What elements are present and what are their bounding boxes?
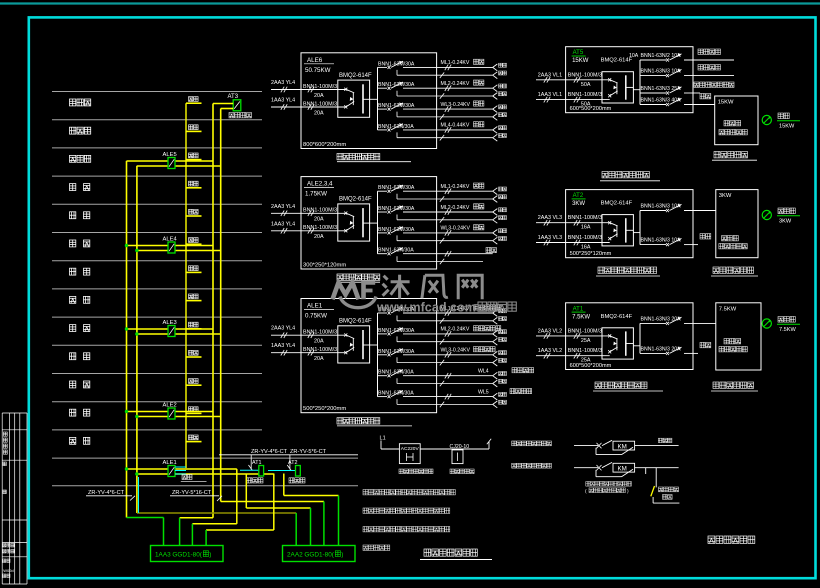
drop to AT1 fan box xyxy=(250,455,252,470)
fork labels row4 xyxy=(499,372,507,384)
title block vertical text xyxy=(0,0,1,1)
wire riser right A (yellow) xyxy=(212,104,214,518)
svg-text:BNN1-63N/2 10A: BNN1-63N/2 10A xyxy=(641,53,682,59)
wire branch floor 6 xyxy=(186,300,202,302)
wire W7 ALE1 upper loop xyxy=(236,469,238,524)
motor label AT5 xyxy=(777,113,800,130)
output bus ALE1 xyxy=(377,313,379,397)
ATS box AT3 xyxy=(233,100,241,111)
label yingji floor 10 xyxy=(189,181,199,186)
wire branch floor 11 xyxy=(186,159,202,161)
svg-text:7.5KW: 7.5KW xyxy=(572,314,590,320)
label yingji floor 13 xyxy=(189,97,199,102)
svg-text:BMQ2-614F: BMQ2-614F xyxy=(339,319,372,325)
floor label 十二层 xyxy=(70,127,91,134)
wire ALE4 upper horizontal xyxy=(127,245,214,247)
svg-text:1AA3 YL4: 1AA3 YL4 xyxy=(271,98,295,104)
circuit label ML2-0.24KV row2 xyxy=(441,80,484,87)
label yingji floor 2 xyxy=(189,407,199,412)
circuit label WL3-0.24KV row3 xyxy=(441,225,484,232)
wire riser supply-1 left (yellow) xyxy=(126,161,128,518)
ATS switch ALE1 xyxy=(338,326,370,363)
wire circuit B outputs xyxy=(635,467,679,469)
svg-text:BNN1-63N/3 10A: BNN1-63N/3 10A xyxy=(641,238,682,244)
svg-text:): ) xyxy=(209,552,211,559)
breaker BNN1-63M/30A row2 xyxy=(378,82,493,99)
input feeder 2AA3 VL3 AT2 xyxy=(536,215,610,231)
label yingji floor 9 xyxy=(189,209,199,214)
svg-text:ALE4: ALE4 xyxy=(163,237,178,243)
svg-text:20A: 20A xyxy=(314,93,324,99)
svg-text:ALE5: ALE5 xyxy=(163,152,177,158)
svg-text:BNN1-100M/3: BNN1-100M/3 xyxy=(303,208,337,214)
panel title songfengji qiehuan xiang xyxy=(595,382,647,388)
breaker BNN1-63N/30A row4 xyxy=(378,369,493,386)
motor label AT2 xyxy=(777,208,800,225)
svg-text:2AA3 YL4: 2AA3 YL4 xyxy=(271,204,295,210)
svg-text:2AA2 GGD1-80(: 2AA2 GGD1-80( xyxy=(287,552,335,559)
circuit label ML2-0.24KV row2 xyxy=(441,326,501,333)
ATS output feed ALE6 xyxy=(370,98,378,100)
label beiyong block2 row4 xyxy=(486,248,496,253)
svg-text:BMQ2-614F: BMQ2-614F xyxy=(601,201,633,207)
wire W8 ALE1 lower loop xyxy=(273,474,275,531)
input feeder 1AA3 ALE6 xyxy=(271,98,346,117)
svg-text:2AA3 YL4: 2AA3 YL4 xyxy=(271,80,295,86)
label yingji floor 11 xyxy=(189,153,199,158)
panel AT2 enclosure xyxy=(566,190,693,258)
panel ALE2,3,4 enclosure xyxy=(301,177,437,269)
junction dots ALE1 xyxy=(125,467,128,470)
load label AT5 row3 xyxy=(694,82,734,87)
svg-text:7.5KW: 7.5KW xyxy=(779,327,797,333)
switch blade yellow xyxy=(651,486,655,496)
floor label 十 层 xyxy=(70,184,76,191)
load label AT5 row4 xyxy=(700,94,711,99)
floor line 12 xyxy=(52,401,262,403)
wire branch floor 8 xyxy=(186,243,202,245)
input feeder 1AA3 VL3 AT2 xyxy=(536,235,610,251)
floor label 六 层 xyxy=(70,296,76,303)
breaker BNN1-63N/2 10A AT5 row1 xyxy=(629,53,734,62)
wire branch floor 3 xyxy=(186,384,202,386)
svg-text:10A: 10A xyxy=(629,53,639,59)
label danlian kaiguan xyxy=(659,487,679,492)
svg-text:AT1: AT1 xyxy=(573,306,584,312)
svg-text:WL3-0.24KV: WL3-0.24KV xyxy=(441,226,471,232)
floor label 二 层 xyxy=(70,409,76,416)
breaker BNN1-63N/3 25A AT5 row3 xyxy=(640,86,700,95)
input feeder 2AA3 ALE6 xyxy=(271,80,346,99)
svg-text:BNN1-100M/3: BNN1-100M/3 xyxy=(568,72,602,78)
load label AT5 row2 xyxy=(698,65,721,70)
svg-text:BMQ2-614F: BMQ2-614F xyxy=(601,58,633,64)
factory box AT5 xyxy=(715,96,758,145)
fork labels row5 xyxy=(499,392,507,404)
ATS output feed ALE2,3,4 xyxy=(370,222,378,224)
wire W6 riser1 to switchgear1 xyxy=(127,517,164,519)
output bus AT5 xyxy=(639,60,641,105)
svg-text:0.75KW: 0.75KW xyxy=(305,313,327,320)
panel box ALE2 xyxy=(168,408,175,419)
diagram title shigu zhaoming yuanlitu xyxy=(424,549,477,556)
floor label 十一层 xyxy=(70,155,91,162)
fork labels row3 xyxy=(499,105,507,117)
svg-text:300*250*120mm: 300*250*120mm xyxy=(303,263,346,269)
label shusandeng xyxy=(658,438,672,442)
svg-text:3KW: 3KW xyxy=(779,219,792,225)
breaker BNN1-63M/30A row1 xyxy=(378,185,493,202)
fork labels row2 xyxy=(499,84,507,96)
lamp fork row4 xyxy=(493,372,498,387)
lamp fork row3 xyxy=(493,351,498,366)
svg-text:1AA3 YL4: 1AA3 YL4 xyxy=(271,343,295,349)
label yingji at ALE1 xyxy=(182,475,192,480)
input feeder 2AA3 ALE1 xyxy=(271,326,346,345)
breaker BNN1-63M/30A row2 xyxy=(378,205,493,222)
panel AT5 enclosure xyxy=(566,47,693,113)
svg-text:3KW: 3KW xyxy=(719,193,732,199)
svg-text:ZR-YV-5*6-CT: ZR-YV-5*6-CT xyxy=(290,449,327,455)
panel title paiwubeng control xyxy=(598,267,657,273)
outer top trim line xyxy=(0,2,820,4)
panel box ALE5 xyxy=(168,158,175,169)
breaker BNN1-63N/3 10A AT5 row2 xyxy=(640,69,734,78)
svg-text:600*500*200mm: 600*500*200mm xyxy=(570,106,612,112)
contact box AC220V xyxy=(399,444,420,464)
panel box ALE4 xyxy=(168,242,175,253)
svg-text:ML2-0.24KV: ML2-0.24KV xyxy=(441,81,470,87)
wire circuit B xyxy=(574,467,598,469)
svg-text:20A: 20A xyxy=(314,217,324,223)
floor line 13 xyxy=(52,429,262,431)
label KM aux contact xyxy=(586,482,632,487)
svg-text:WL5: WL5 xyxy=(478,389,489,395)
breaker BNN1-63N/3 20A AT1 row1 xyxy=(640,316,716,325)
panel box ALE3 xyxy=(168,326,175,337)
load label AT2 row2 xyxy=(700,234,711,239)
breaker BNN1-63M/30A row1 xyxy=(378,306,493,323)
output bus AT1 xyxy=(639,323,641,353)
wire emergency branch riser (yellow) xyxy=(185,103,187,468)
fire lines at ALE1 (cyan) xyxy=(175,466,186,468)
svg-text:50.75KW: 50.75KW xyxy=(305,67,331,74)
lamp fork row1 xyxy=(493,310,498,325)
lamp fork row1 xyxy=(493,64,498,79)
wire ALE2 lower horizontal xyxy=(137,416,221,418)
svg-text:AC220V: AC220V xyxy=(401,446,420,452)
svg-text:ALE3: ALE3 xyxy=(163,320,177,326)
svg-text:AT5: AT5 xyxy=(573,50,584,56)
svg-text:BNN1-100M/3: BNN1-100M/3 xyxy=(568,92,602,98)
ATS switch AT1 xyxy=(602,328,633,359)
wire W4 from AT2 xyxy=(283,474,285,496)
svg-text:ALE1: ALE1 xyxy=(307,303,323,310)
lamp fork row2 xyxy=(493,85,498,100)
floor label 十三层 xyxy=(70,99,91,106)
label yingji floor 12 xyxy=(189,125,199,130)
fork labels row3 xyxy=(499,351,507,363)
svg-text:50A: 50A xyxy=(581,82,591,88)
svg-text:BNN1-100M/3: BNN1-100M/3 xyxy=(303,101,337,107)
junction dots ALE3 xyxy=(125,327,128,330)
svg-text:ML4-0.44KV: ML4-0.44KV xyxy=(441,123,470,129)
panel title under AT1 xyxy=(0,0,1,1)
input feeder 1AA3 ALE1 xyxy=(271,343,346,362)
breaker BNN1-63M/30A row3 xyxy=(378,348,493,365)
junction dots ALE4 xyxy=(125,244,128,247)
title block table xyxy=(2,413,27,584)
lamp fork row5 xyxy=(493,393,498,408)
svg-text:800*600*200mm: 800*600*200mm xyxy=(303,142,346,148)
svg-text:BNN1-100M/3: BNN1-100M/3 xyxy=(568,235,602,241)
label yingji floor 3 xyxy=(189,379,199,384)
floor line 6 xyxy=(52,232,262,234)
fire wire cyan drop xyxy=(138,477,140,513)
fork labels row1 xyxy=(499,309,507,321)
wire W2 riserB to switchgear2 xyxy=(221,501,324,503)
floor label 九 层 xyxy=(70,212,76,219)
svg-text:WL3-0.24KV: WL3-0.24KV xyxy=(441,348,471,354)
label songfengji xyxy=(247,478,263,483)
svg-text:W02d: W02d xyxy=(3,568,13,573)
breaker BNN1-63N/3 10A AT2 row2 xyxy=(640,238,698,247)
svg-text:20A: 20A xyxy=(314,110,324,116)
label jiaoliu jiechuqi xyxy=(450,469,474,474)
svg-text:ML2-0.24KV: ML2-0.24KV xyxy=(441,205,470,211)
svg-text:16A: 16A xyxy=(581,225,591,231)
panel title under AT2 xyxy=(0,0,1,1)
svg-text:L1: L1 xyxy=(380,436,386,442)
floor line 2 xyxy=(52,119,262,121)
title block small entries xyxy=(3,462,6,466)
svg-text:BMQ2-614F: BMQ2-614F xyxy=(339,197,372,203)
factory title paiwubeng diankong xiang xyxy=(713,267,754,273)
svg-text:ZR-YV-4*6-CT: ZR-YV-4*6-CT xyxy=(251,449,288,455)
wire ALE1 upper horizontal xyxy=(127,468,237,470)
floor label 八 层 xyxy=(70,240,76,247)
label yingji floor 4 xyxy=(189,350,199,355)
svg-text:CJ20-10: CJ20-10 xyxy=(450,444,470,450)
circuit label ML2-0.24KV row2 xyxy=(441,204,484,211)
svg-text:600*500*200mm: 600*500*200mm xyxy=(570,363,612,369)
lamp fork row2 xyxy=(493,209,498,224)
svg-text:BNN1-100M/3: BNN1-100M/3 xyxy=(303,347,337,353)
svg-text:BNN1-100M/3: BNN1-100M/3 xyxy=(303,225,337,231)
lamp fork row2 xyxy=(493,331,498,346)
load label AT1 row2 xyxy=(700,342,711,347)
floor label 五 层 xyxy=(70,325,76,332)
svg-text:BNN1-63N/3 10A: BNN1-63N/3 10A xyxy=(641,69,682,75)
wire riser supply-2 left (yellow) xyxy=(136,166,138,513)
ATS switch ALE2,3,4 xyxy=(338,204,370,241)
svg-text:KM: KM xyxy=(618,466,627,473)
label yingji floor 7 xyxy=(189,266,199,271)
panel title under AT5 xyxy=(0,0,1,1)
svg-text:BNN1-100M/3: BNN1-100M/3 xyxy=(568,215,602,221)
wire branch floor 1 xyxy=(186,441,202,443)
cable underline top xyxy=(219,454,358,456)
label circuit A xyxy=(512,441,552,446)
KM1 aux branch xyxy=(595,448,597,455)
floor line 5 xyxy=(52,203,262,205)
floor line basement xyxy=(52,485,358,487)
wire branch floor 9 xyxy=(186,215,202,217)
floor line ground xyxy=(52,457,358,459)
svg-text:500*250*200mm: 500*250*200mm xyxy=(303,406,346,412)
svg-text:15KW: 15KW xyxy=(779,124,795,130)
wire W5 riser2 olive to switchgear2 xyxy=(137,512,296,514)
svg-text:BNN1-100M/3: BNN1-100M/3 xyxy=(568,328,602,334)
breaker BNN1-63N/3 10A AT2 row1 xyxy=(640,204,716,213)
svg-text:AT2: AT2 xyxy=(573,193,584,199)
wire ALE1 lower horizontal xyxy=(137,473,274,475)
breaker BNN1-63N/30A row4 xyxy=(378,247,493,264)
svg-text:ALE2: ALE2 xyxy=(163,403,177,409)
svg-text:BNN1-63N/3 40A: BNN1-63N/3 40A xyxy=(641,98,682,104)
floor line 4 xyxy=(52,175,262,177)
floor label 三 层 xyxy=(70,381,76,388)
floor label 一 层 xyxy=(70,437,76,444)
svg-text:16A: 16A xyxy=(581,245,591,251)
fork labels row4 xyxy=(499,126,507,138)
svg-text:7.5KW: 7.5KW xyxy=(719,306,737,312)
circuit label WL3-0.24KV row3 xyxy=(441,347,496,354)
wire hook bottom xyxy=(652,497,654,503)
svg-text:1.75KW: 1.75KW xyxy=(305,191,327,198)
label yingji floor 1 xyxy=(189,435,199,440)
output bus AT2 xyxy=(639,211,641,245)
factory title dianti diankong xiang xyxy=(714,152,748,158)
factory box AT1 xyxy=(716,303,761,370)
svg-text:KM: KM xyxy=(618,444,627,451)
wire ALE4 lower horizontal xyxy=(137,250,221,252)
svg-text:BNN1-100M/3: BNN1-100M/3 xyxy=(303,330,337,336)
diagram title shuang dianyuan xitongtu xyxy=(708,536,755,543)
switchgear 1AA3 GGD1-80 xyxy=(151,546,224,562)
wire riser right B (yellow) xyxy=(220,109,222,502)
wire ALE5 lower horizontal xyxy=(137,165,221,167)
svg-text:20A: 20A xyxy=(314,356,324,362)
fork labels row1 xyxy=(499,187,507,199)
label circuit B xyxy=(512,463,552,468)
lamp fork row1 xyxy=(493,188,498,203)
svg-text:15KW: 15KW xyxy=(572,58,589,64)
svg-text:25A: 25A xyxy=(581,338,591,344)
input feeder 1AA3 VL2 AT1 xyxy=(536,348,610,364)
ATS switch AT5 xyxy=(602,72,633,103)
watermark mfcad xyxy=(333,275,483,308)
svg-text:500*250*120mm: 500*250*120mm xyxy=(570,251,612,257)
wire W1 riserA to switchgear1 xyxy=(180,517,213,519)
panel title under ALE2,3,4 xyxy=(337,274,380,280)
breaker BNN1-63N/3 20A AT1 row2 xyxy=(640,346,698,355)
svg-text:www.mfcad.com: www.mfcad.com xyxy=(376,301,476,315)
KM2 aux branch xyxy=(595,470,597,477)
input feeder 2AA3 ALE2,3,4 xyxy=(271,204,346,223)
fork labels row2 xyxy=(499,330,507,342)
wire ALE5 upper horizontal xyxy=(127,160,214,162)
svg-text:BMQ2-614F: BMQ2-614F xyxy=(601,314,633,320)
fork labels row2 xyxy=(499,208,507,220)
svg-text:20A: 20A xyxy=(314,234,324,240)
floor line 8 xyxy=(52,288,262,290)
panel AT1 enclosure xyxy=(566,303,693,370)
ATS output feed ALE1 xyxy=(370,344,378,346)
svg-text:1AA3 YL4: 1AA3 YL4 xyxy=(271,221,295,227)
panel title under ALE1 xyxy=(337,418,380,424)
ATS switch AT2 xyxy=(602,215,633,246)
wire ALE3 lower horizontal xyxy=(137,333,221,335)
wire circuit A xyxy=(574,445,598,447)
svg-text:WL4: WL4 xyxy=(478,369,489,375)
svg-text:): ) xyxy=(341,552,343,559)
svg-text:BNN1-63N/3 10A: BNN1-63N/3 10A xyxy=(641,204,682,210)
input feeder 2AA3 VL1 AT5 xyxy=(536,72,610,88)
panel ALE6 enclosure xyxy=(301,53,437,149)
svg-text:15KW: 15KW xyxy=(718,100,734,106)
breaker BNN1-63M/30A row3 xyxy=(378,103,493,120)
fork labels row3 xyxy=(499,229,507,241)
contactor KM 2 xyxy=(613,463,635,472)
wire AT3 feed A xyxy=(213,103,233,105)
label yingji floor 5 xyxy=(189,322,199,327)
lamp fork row3 xyxy=(493,230,498,245)
motor symbol AT1 xyxy=(762,319,771,328)
svg-text:ML1-0.24KV: ML1-0.24KV xyxy=(441,184,470,190)
floor line 7 xyxy=(52,260,262,262)
breaker BNN1-63N/3 40A AT5 row4 xyxy=(640,98,715,107)
svg-text:ALE2,3,4: ALE2,3,4 xyxy=(307,181,333,188)
lamp fork row4 xyxy=(493,127,498,142)
label yingji dianyuan under AT3 xyxy=(229,113,252,118)
switchgear 2AA2 GGD1-80 xyxy=(283,546,356,562)
wire branch floor 12 xyxy=(186,130,202,132)
wire ALE2 upper horizontal xyxy=(127,411,214,413)
drop to AT2 pump box xyxy=(289,455,291,470)
breaker BNN1-63M/30A row1 xyxy=(378,61,493,78)
svg-text:20A: 20A xyxy=(314,339,324,345)
wire ALE3 upper horizontal xyxy=(127,328,214,330)
floor line 1 xyxy=(52,91,262,93)
circuit label ML1-0.24KV row1 xyxy=(441,305,501,312)
svg-text:BNN1-100M/3: BNN1-100M/3 xyxy=(303,84,337,90)
wire branch floor 7 xyxy=(186,271,202,273)
junction dots ALE2 xyxy=(125,410,128,413)
wire L1 drop xyxy=(380,441,382,450)
svg-text:2AA3 YL4: 2AA3 YL4 xyxy=(271,326,295,332)
panel ALE1 enclosure xyxy=(301,299,437,413)
panel title under ALE6 xyxy=(337,154,380,160)
wire branch floor 2 xyxy=(186,412,202,414)
label huozai xinhao xyxy=(399,469,433,474)
circuit label WL3-0.24KV row3 xyxy=(441,101,484,108)
wire W3 from AT1 xyxy=(245,474,247,509)
factory title songfengji diankong xiang xyxy=(713,382,754,388)
label yingji floor 8 xyxy=(189,238,199,243)
motor symbol AT5 xyxy=(762,115,771,124)
circuit label ML1-0.24KV row1 xyxy=(441,59,484,66)
breaker BNN1-63M/30A row2 xyxy=(378,327,493,344)
svg-text:BMQ2-614F: BMQ2-614F xyxy=(339,73,372,79)
floor label 四 层 xyxy=(70,353,76,360)
panel title dianti dianyuan qiehuan xiang xyxy=(602,172,649,178)
input feeder 2AA3 VL2 AT1 xyxy=(536,328,610,344)
svg-text:3KW: 3KW xyxy=(572,201,585,207)
floor line 3 xyxy=(52,147,262,149)
lamp fork row3 xyxy=(493,106,498,121)
wire branch floor 13 xyxy=(186,102,202,104)
